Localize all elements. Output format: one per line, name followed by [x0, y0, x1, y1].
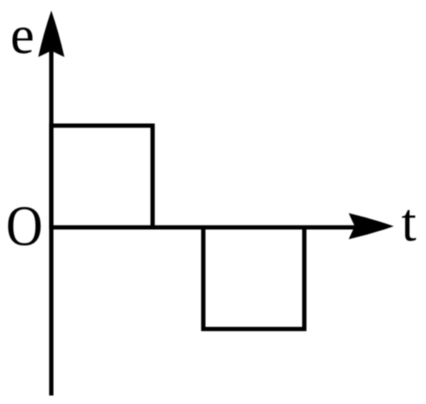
e axis arrowhead [38, 11, 64, 58]
t axis (horizontal) [49, 225, 355, 229]
svg-text:t: t [401, 192, 416, 252]
square wave: positive pulse [51, 126, 152, 228]
e axis (vertical) [49, 38, 53, 396]
svg-text:O: O [6, 195, 43, 258]
t axis arrowhead [349, 213, 394, 239]
svg-text:e: e [10, 5, 34, 65]
square wave: negative pulse [203, 227, 304, 329]
